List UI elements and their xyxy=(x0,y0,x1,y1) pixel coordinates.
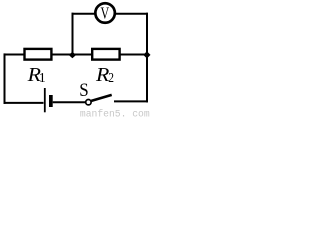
wire: R1 to junction A xyxy=(52,54,73,56)
node A: junction diamond between R1 and R2 xyxy=(69,52,76,58)
svg-text:1: 1 xyxy=(39,71,46,86)
wire: voltmeter branch top-left horizontal xyxy=(72,13,96,15)
wire: right vertical side xyxy=(146,13,148,103)
wire: R2 to junction B xyxy=(120,54,147,56)
wire: voltmeter branch top-right horizontal xyxy=(116,13,148,15)
wire: bottom left horizontal (corner to battery) xyxy=(4,102,44,104)
svg-text:2: 2 xyxy=(108,70,114,85)
wire: voltmeter branch left vertical xyxy=(72,13,74,55)
voltmeter V (circle) xyxy=(95,3,115,23)
wire: bottom right horizontal (switch to right corner) xyxy=(114,100,148,102)
wire: left horizontal to R1 xyxy=(4,54,25,56)
svg-text:V: V xyxy=(101,5,110,24)
battery cell: short thick plate xyxy=(49,95,53,107)
wire: junction A to R2 xyxy=(73,54,93,56)
wire: left vertical side of main loop xyxy=(4,53,6,104)
node B: junction diamond at right side xyxy=(143,51,150,58)
svg-text:manfen5. com: manfen5. com xyxy=(80,108,150,117)
wire: battery to switch xyxy=(53,101,86,103)
switch S pivot circle xyxy=(86,100,91,105)
battery cell: long thin plate xyxy=(44,88,46,112)
svg-text:S: S xyxy=(79,79,88,100)
switch S lever xyxy=(91,95,111,101)
resistor R2 xyxy=(92,49,119,60)
resistor R1 xyxy=(25,49,52,60)
